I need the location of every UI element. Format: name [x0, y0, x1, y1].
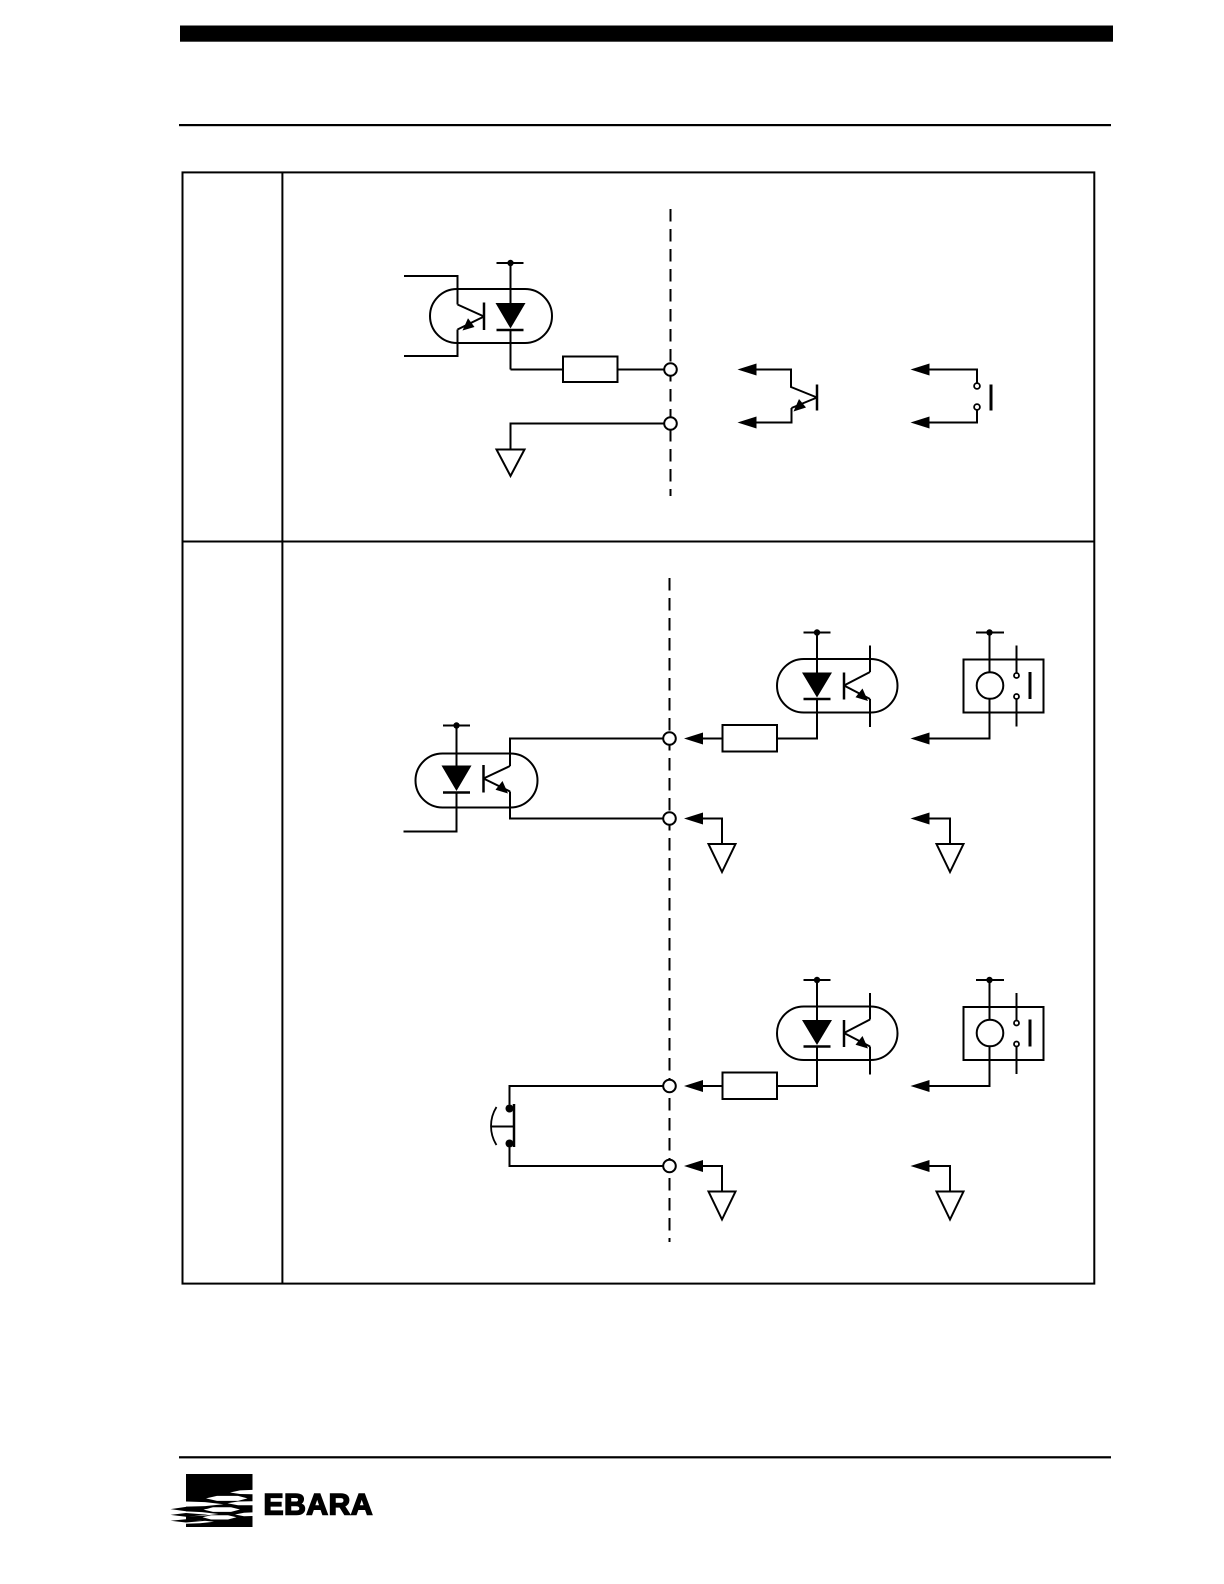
wire (RY2 coil top lead)	[989, 980, 991, 1020]
power node (U3 LED anode)	[804, 629, 831, 635]
optocoupler U3 body	[777, 659, 898, 713]
wire (U1 emitter stub)	[404, 330, 458, 357]
wire with arrow (into terminal 3)	[684, 733, 723, 745]
wire with arrow (RY2 coil return to terminal 5)	[911, 1046, 990, 1092]
ground (row 2 left)	[709, 844, 736, 872]
table row divider	[183, 541, 1095, 543]
wire (R2 to U3 LED)	[777, 699, 817, 739]
dashed interface line (row 1)	[670, 209, 672, 496]
wire (U1 collector stub)	[404, 276, 458, 305]
wire (U2 cathode lead + stub)	[404, 793, 457, 832]
wire (cathode lead down to resistor wire)	[510, 330, 512, 370]
wire (U3 anode lead)	[816, 633, 818, 674]
ground (row 2 lower left)	[709, 1192, 736, 1220]
ground (row 2 right)	[937, 844, 964, 872]
optocoupler U1 body	[430, 289, 552, 343]
terminal node 1	[664, 363, 677, 376]
resistor R3	[723, 1073, 778, 1100]
terminal node 6	[663, 1160, 676, 1173]
ROW 1	[404, 209, 991, 496]
upper isolated output unit (right of line)	[684, 629, 1044, 872]
switch SW1 (manual contact)	[491, 1104, 514, 1148]
power node (RY1 coil)	[976, 629, 1004, 635]
wire (U3 emitter stub down)	[869, 699, 871, 727]
wire (U3 collector stub up)	[869, 646, 871, 673]
terminal node 5	[663, 1080, 676, 1093]
relay RY1 coil	[977, 672, 1004, 699]
power node (U2 LED anode)	[443, 722, 470, 728]
footer rule	[179, 1456, 1111, 1458]
wire (U4 emitter stub down)	[869, 1047, 871, 1075]
svg-text:EBARA: EBARA	[264, 1489, 374, 1522]
LED D4 (in U4)	[802, 1020, 832, 1047]
relay RY2 contact	[1014, 993, 1030, 1074]
wire with arrow (into terminal 5)	[684, 1080, 723, 1092]
wire with arrow (customer ground, right)	[911, 813, 951, 845]
lower isolated output unit (right of line)	[684, 977, 1044, 1220]
wire (U2 collector to terminal 3)	[510, 739, 664, 767]
phototransistor of U4	[844, 1020, 870, 1049]
power node (U4 LED anode)	[804, 977, 831, 983]
terminal node 4	[663, 812, 676, 825]
LED D2 (in U2)	[442, 766, 472, 793]
wire with arrow (terminal 4 to ground, left)	[684, 813, 722, 845]
wire (coil top lead)	[989, 633, 991, 673]
optocoupler U2 body	[416, 754, 538, 808]
LED D3 (in U3)	[802, 673, 832, 700]
relay RY1 box	[964, 660, 1044, 713]
table frame	[183, 172, 1095, 1283]
wire (switch to terminal 6)	[510, 1148, 664, 1167]
table column divider	[281, 172, 283, 1283]
wire (to resistor R1)	[511, 369, 564, 371]
phototransistor of U1	[458, 303, 485, 331]
terminal node 2	[664, 417, 677, 430]
relay RY2 box	[964, 1007, 1044, 1060]
top title bar	[180, 26, 1113, 42]
wire with arrow (Q1 collector, input current)	[738, 364, 818, 398]
header rule	[179, 124, 1111, 126]
transistor Q1 (open collector, customer side)	[792, 385, 818, 412]
wire with arrow (coil return to terminal 3)	[911, 699, 990, 745]
wire (terminal 5 to switch)	[510, 1086, 664, 1105]
wire with arrow (contact return)	[911, 410, 978, 429]
EBARA logo mark	[171, 1474, 253, 1527]
wire (U4 collector stub up)	[869, 993, 871, 1020]
phototransistor of U3	[844, 672, 870, 701]
relay RY1 contact	[1014, 646, 1030, 727]
wire (U4 anode lead)	[816, 980, 818, 1021]
LED D1 (in U1)	[496, 303, 526, 330]
wire (R1 to terminal 1)	[618, 369, 665, 371]
dashed interface line (row 2)	[669, 578, 671, 1242]
ground (row 1)	[497, 450, 525, 477]
ROW 2	[404, 578, 1044, 1242]
wire with arrow (contact input)	[911, 364, 978, 384]
phototransistor of U2	[484, 765, 511, 794]
relay RY2 coil	[977, 1020, 1004, 1047]
resistor R1	[563, 357, 618, 383]
contact S1 (dry contact, customer side)	[974, 383, 991, 410]
wire (anode lead down)	[510, 263, 512, 304]
power node (RY2 coil)	[976, 977, 1004, 983]
wire (terminal 2 to ground)	[511, 424, 665, 450]
wire (U2 emitter to terminal 4)	[510, 792, 664, 819]
wire with arrow (Q1 emitter return)	[738, 408, 792, 429]
resistor R2	[723, 725, 778, 752]
power node (U1 LED anode)	[497, 260, 524, 266]
wire (U2 anode lead)	[456, 726, 458, 767]
ground (row 2 lower right)	[937, 1192, 964, 1220]
wire (R3 to U4 LED)	[777, 1047, 817, 1087]
wire with arrow (terminal 6 to ground, left)	[684, 1160, 722, 1192]
optocoupler U4 body	[777, 1007, 898, 1061]
wire with arrow (customer ground, lower right)	[911, 1160, 951, 1192]
terminal node 3	[663, 732, 676, 745]
